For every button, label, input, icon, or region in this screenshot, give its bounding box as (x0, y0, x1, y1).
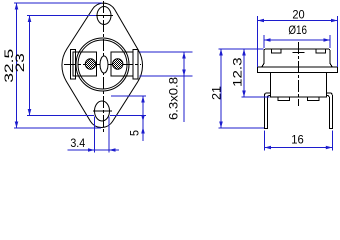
dim O16 ext left (263, 35, 265, 48)
dim 12.3 ext top (shared with 21) (219, 48, 264, 50)
dim 21 ext bottom (219, 127, 265, 129)
left terminal block (73, 52, 97, 76)
cap skirt flare right (330, 64, 332, 68)
dim 20 arrow left (258, 19, 265, 23)
dim 20 ext left (257, 16, 259, 67)
centerline vertical (297, 42, 299, 106)
dim 23 extension bottom right segment (serves dim 5) (110, 115, 146, 117)
dim 23 arrow down (28, 109, 32, 116)
left rivet (85, 59, 95, 69)
dim 20 arrow right (331, 19, 338, 23)
dim 5 arrow down at hole bottom (141, 115, 145, 122)
svg-text:6.3x0.8: 6.3x0.8 (166, 77, 180, 120)
dim 6.3x0.8 arrow down (182, 70, 186, 77)
vertical centerline (102, 1, 104, 133)
dim O16 ext right (329, 35, 331, 48)
dim 16 ext right (331, 131, 333, 151)
dim 5 arrow up (141, 96, 145, 103)
dim 5 extension top (111, 95, 146, 97)
bottom mounting hole (95, 101, 110, 121)
svg-text:20: 20 (292, 8, 305, 22)
dim 32.5 line (16, 3, 18, 128)
horizontal centerline (64, 63, 141, 65)
dim 32.5 extension top (14, 2, 102, 4)
cap outer circle (76, 38, 129, 91)
base bottom tab right (308, 97, 320, 101)
dim 20 ext right (337, 16, 339, 67)
dim 5 arrow up at flange bottom (141, 127, 145, 134)
svg-text:3.4: 3.4 (70, 136, 85, 150)
dim 6.3x0.8 arrow up (182, 52, 186, 59)
dim 5 line (142, 96, 144, 141)
dim 32.5 extension bottom (14, 127, 101, 129)
dim 32.5 arrow up (15, 3, 19, 10)
center cross tick (292, 52, 304, 54)
svg-text:21: 21 (210, 86, 224, 100)
dim 12.3 arrow up (242, 49, 246, 56)
dim 32.5 arrow down (15, 122, 19, 129)
flange outline (62, 3, 143, 127)
dim 16 line (265, 147, 333, 149)
svg-text:5: 5 (128, 130, 142, 136)
dim 3.4 extension left (94, 117, 96, 153)
bottom hole cross tick (93, 110, 112, 112)
dim 16 ext left (264, 131, 266, 151)
dim 21 arrow down (219, 122, 223, 129)
left leg (265, 93, 271, 129)
dim 12.3 ext bottom (242, 96, 270, 98)
dim 23 extension top (27, 15, 96, 17)
dim 12.3 arrow down (242, 91, 246, 98)
svg-text:12.3: 12.3 (231, 57, 245, 87)
top hole cross tick (96, 15, 114, 17)
cap top with sides (264, 49, 330, 64)
top mounting hole (97, 7, 111, 25)
dim 21 arrow up (219, 49, 223, 56)
dim 23 extension bottom left segment (27, 115, 94, 117)
dim 6.3x0.8 line (183, 52, 185, 122)
cap crimp notch right (316, 49, 326, 53)
dim O16 line (264, 39, 330, 41)
dim 23 arrow up (28, 16, 32, 23)
cap skirt flare left (262, 64, 264, 68)
dim 12.3 line (243, 49, 245, 97)
right rivet (113, 59, 123, 69)
base bottom tab left (278, 97, 290, 101)
svg-text:23: 23 (13, 53, 27, 72)
dim O16 arrow left (264, 38, 271, 42)
dim O16 arrow right (324, 38, 331, 42)
left terminal bushing (71, 50, 76, 80)
dim 20 line (258, 20, 338, 22)
svg-text:16: 16 (291, 133, 304, 147)
dim 16 arrow right (326, 146, 333, 150)
base body sides (271, 73, 327, 98)
dim 3.4 arrow left-pointing (109, 148, 116, 152)
dim 6.3x0.8 extension bottom (140, 75, 193, 77)
central oval knob (100, 56, 108, 73)
dim 21 line (220, 49, 222, 128)
dim 3.4 line (68, 149, 120, 151)
right terminal block (111, 52, 133, 76)
dim 23 line (29, 16, 31, 116)
flange plate side (258, 67, 338, 73)
svg-text:Ø16: Ø16 (288, 23, 307, 37)
cap inner circle (78, 40, 127, 89)
dim 3.4 arrow right-pointing (88, 148, 95, 152)
dim 3.4 extension right (108, 117, 110, 153)
right leg (327, 93, 333, 129)
dim 16 arrow left (265, 146, 272, 150)
right terminal bushing (133, 50, 138, 80)
cap crimp notch left (272, 49, 282, 53)
dim 6.3x0.8 extension top (140, 51, 193, 53)
